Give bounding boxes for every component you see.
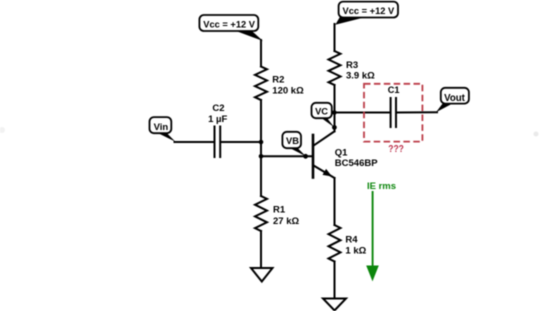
svg-text:Vcc = +12 V: Vcc = +12 V: [203, 20, 255, 30]
svg-text:R2: R2: [272, 75, 284, 86]
svg-text:120 kΩ: 120 kΩ: [272, 85, 304, 96]
svg-text:R3: R3: [346, 60, 358, 71]
svg-text:1 kΩ: 1 kΩ: [345, 246, 366, 257]
svg-text:Vout: Vout: [444, 93, 466, 104]
svg-text:BC546BP: BC546BP: [335, 158, 378, 169]
svg-text:IE rms: IE rms: [367, 181, 396, 192]
svg-text:3.9 kΩ: 3.9 kΩ: [346, 71, 375, 82]
svg-text:Q1: Q1: [335, 147, 348, 158]
svg-text:???: ???: [388, 144, 404, 155]
svg-text:R4: R4: [345, 234, 358, 245]
svg-text:VC: VC: [315, 107, 328, 117]
svg-text:C2: C2: [212, 103, 224, 114]
svg-text:1 µF: 1 µF: [208, 114, 227, 125]
svg-text:27 kΩ: 27 kΩ: [273, 216, 299, 227]
svg-text:Vcc = +12 V: Vcc = +12 V: [343, 6, 395, 16]
svg-text:VB: VB: [286, 136, 299, 146]
svg-text:Vin: Vin: [154, 122, 169, 133]
svg-text:R1: R1: [273, 205, 286, 216]
svg-text:C1: C1: [388, 85, 400, 95]
